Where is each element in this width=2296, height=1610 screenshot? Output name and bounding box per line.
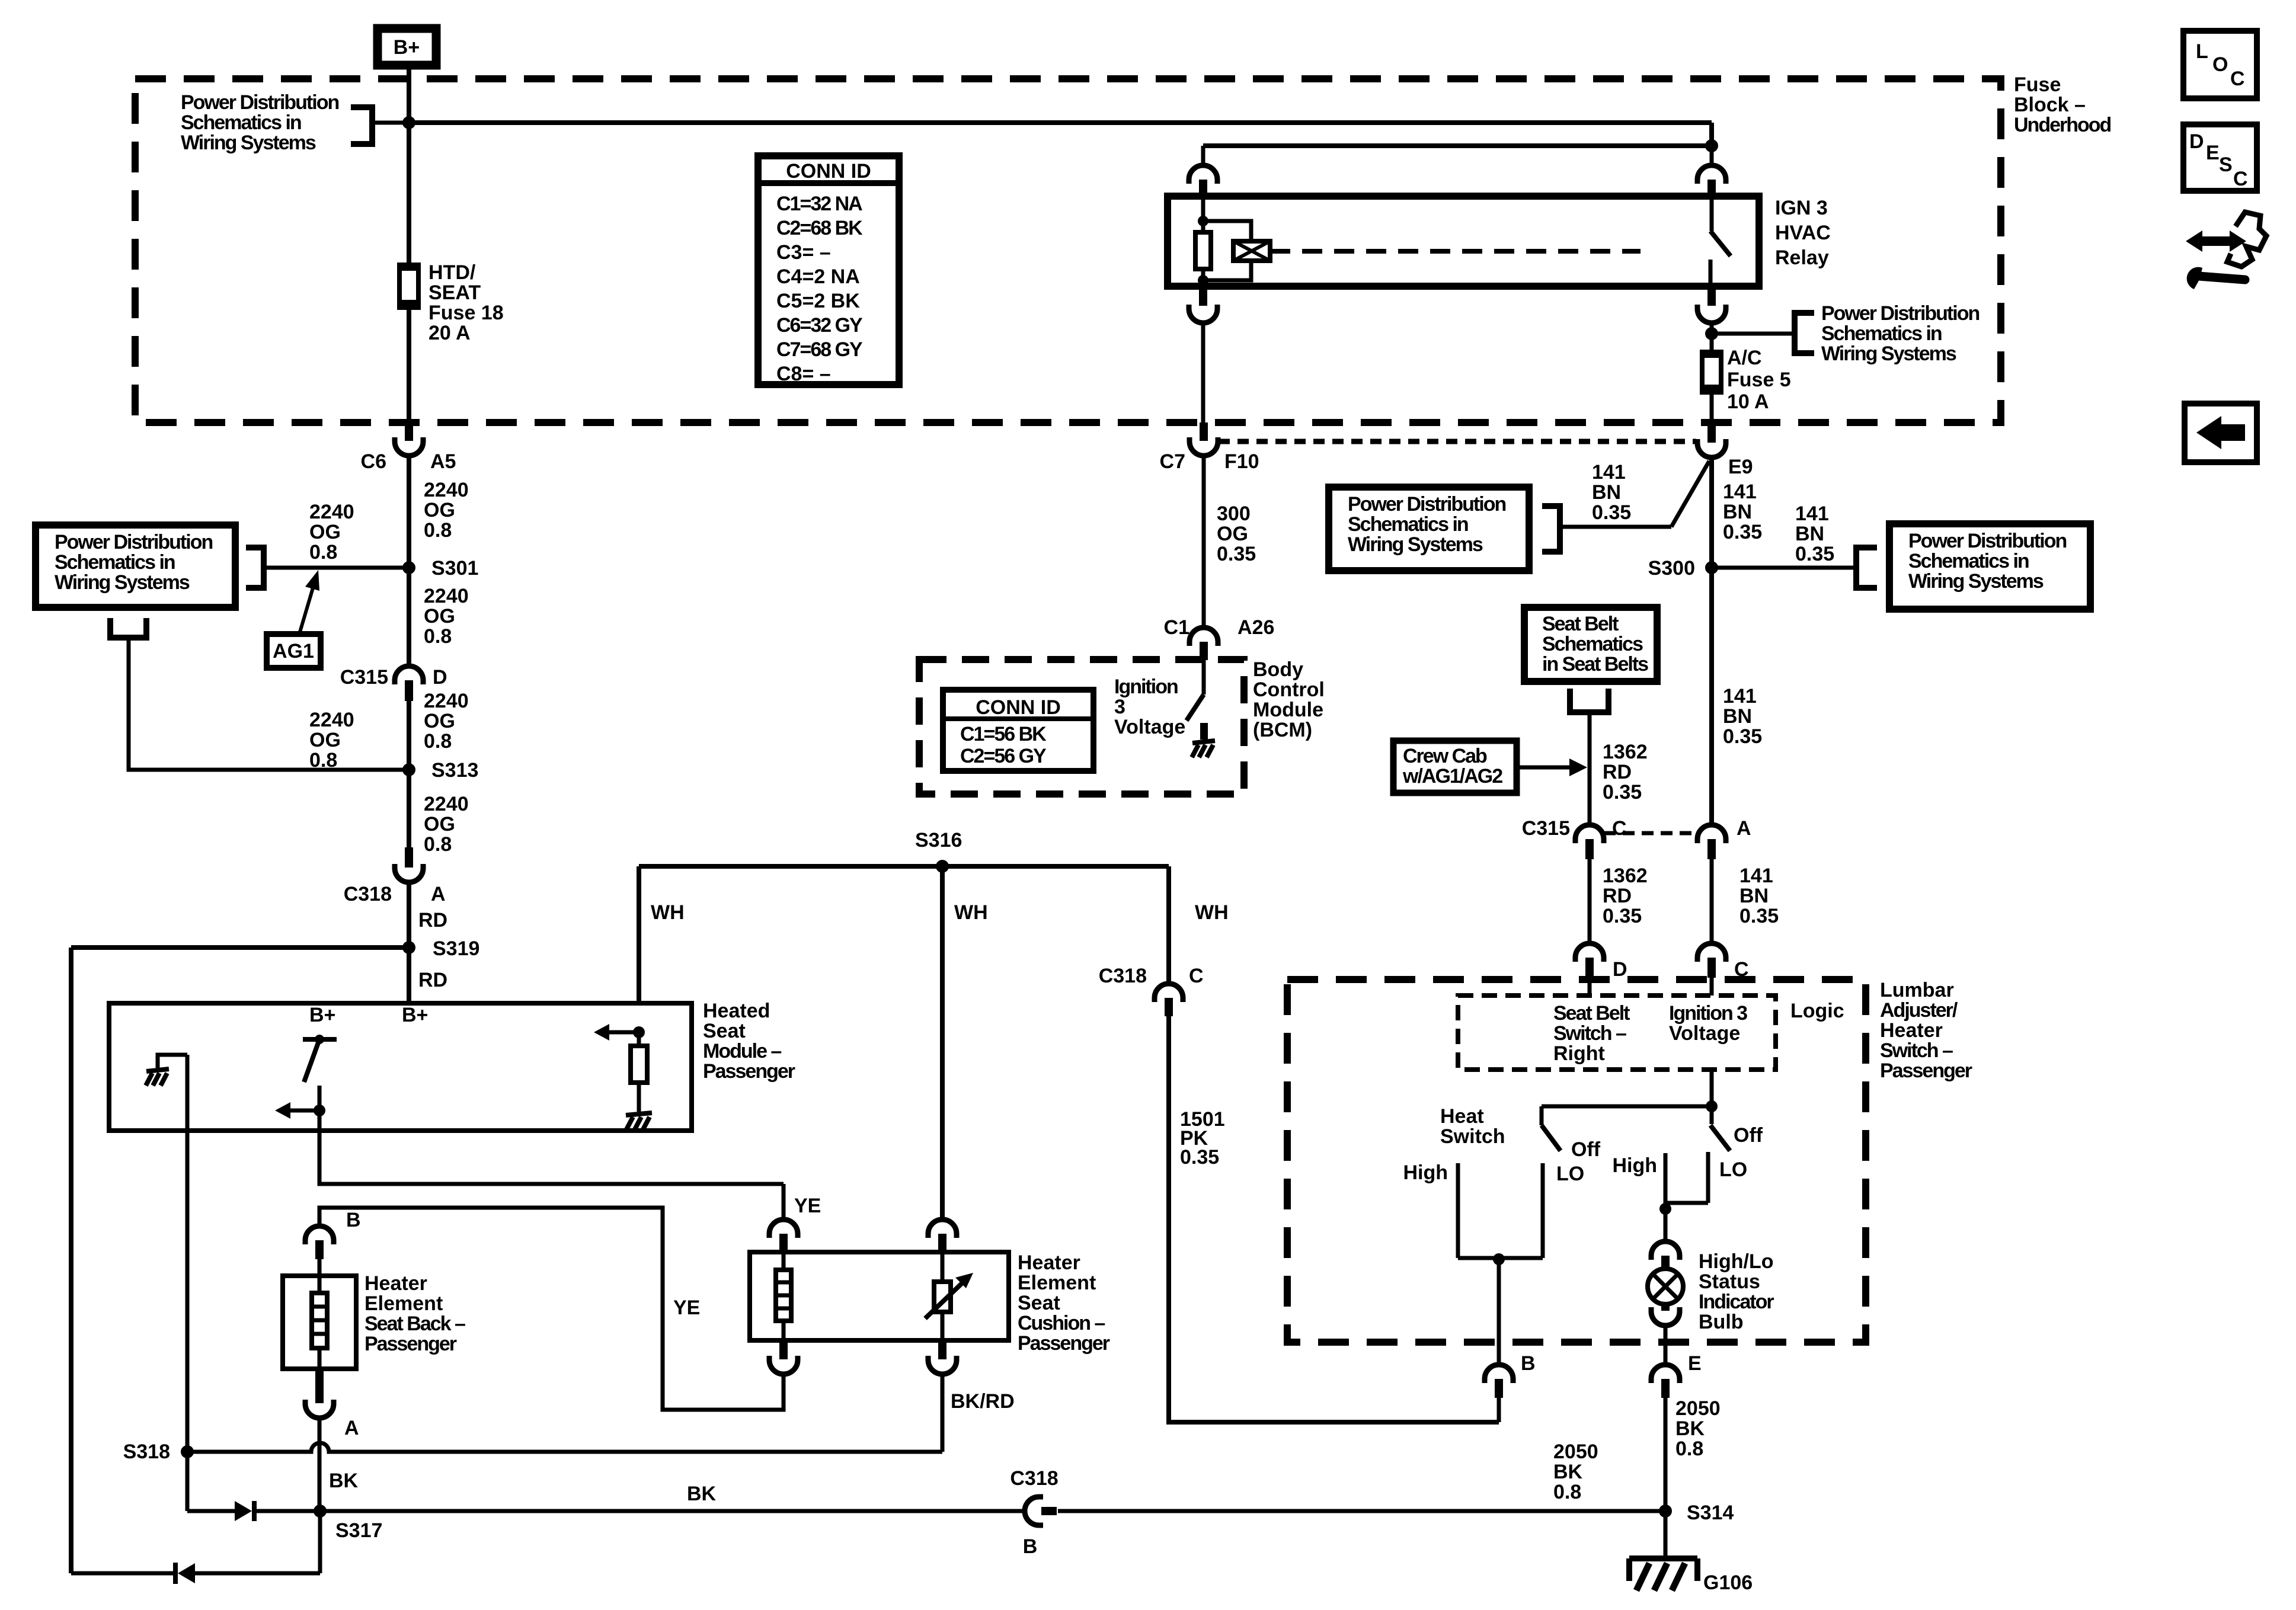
svg-text:141: 141 [1739, 865, 1773, 887]
heater element symbol (cushion) [782, 1252, 786, 1270]
svg-text:O: O [2212, 53, 2228, 76]
svg-text:Seat: Seat [1018, 1292, 1060, 1314]
svg-text:Switch –: Switch – [1553, 1022, 1626, 1045]
svg-text:300: 300 [1217, 502, 1251, 525]
svg-text:Power Distribution: Power Distribution [1821, 302, 1979, 325]
svg-text:Passenger: Passenger [364, 1333, 457, 1355]
svg-text:Seat: Seat [703, 1020, 746, 1042]
logic dashed box [1458, 996, 1776, 1070]
wire: 1501 PK down and over to heat switch [1169, 1016, 1499, 1422]
svg-text:AG1: AG1 [273, 640, 314, 662]
wire: right pole output to bulb [1664, 1209, 1668, 1242]
node S313 [402, 763, 415, 776]
svg-text:0.35: 0.35 [1603, 781, 1642, 804]
svg-text:Wiring Systems: Wiring Systems [1821, 343, 1956, 365]
svg-text:0.8: 0.8 [424, 625, 452, 648]
svg-text:Fuse: Fuse [2014, 73, 2061, 96]
svg-text:0.35: 0.35 [1723, 725, 1762, 748]
svg-text:141: 141 [1795, 502, 1829, 525]
svg-text:S317: S317 [335, 1519, 382, 1542]
svg-text:C1: C1 [1164, 616, 1189, 639]
wire: D into logic box [1588, 978, 1592, 996]
svg-text:High: High [1612, 1154, 1657, 1177]
svg-text:0.8: 0.8 [309, 541, 337, 564]
wire: bracket to S301 [264, 566, 409, 570]
svg-text:Element: Element [1018, 1272, 1096, 1294]
svg-text:Schematics in: Schematics in [55, 551, 175, 574]
svg-text:Switch –: Switch – [1880, 1039, 1953, 1062]
node: module sense junction [633, 1026, 645, 1038]
wire: S319 down into module [407, 948, 411, 1003]
module output arrow (to other circuits) [286, 1109, 319, 1113]
svg-text:0.8: 0.8 [424, 730, 452, 753]
svg-text:C: C [2233, 168, 2248, 190]
svg-text:Bulb: Bulb [1699, 1311, 1744, 1333]
bracket to Power Distribution box (middle) [1542, 506, 1560, 552]
relay coil resistor element [1201, 221, 1205, 232]
svg-text:Element: Element [364, 1292, 443, 1315]
svg-text:Crew Cab: Crew Cab [1403, 745, 1487, 767]
svg-text:C6: C6 [361, 450, 386, 473]
connector: relay coil pin (top left) [1189, 165, 1217, 184]
svg-text:0.8: 0.8 [1675, 1438, 1703, 1460]
wire: C7 to C1 [1202, 456, 1206, 628]
node S301 [402, 561, 415, 574]
BCM CONN ID box [943, 690, 1093, 771]
node: relay coil bottom [1198, 275, 1208, 286]
svg-text:2240: 2240 [424, 793, 469, 815]
wire: seat back element down across hop [318, 1418, 322, 1511]
svg-text:C7=68 GY: C7=68 GY [776, 338, 863, 361]
svg-text:Passenger: Passenger [1880, 1060, 1972, 1082]
svg-text:Switch: Switch [1440, 1125, 1505, 1148]
svg-text:3: 3 [1114, 696, 1125, 718]
svg-text:High: High [1403, 1161, 1448, 1184]
svg-text:10 A: 10 A [1727, 391, 1769, 413]
svg-text:2240: 2240 [309, 709, 354, 731]
svg-text:A/C: A/C [1727, 347, 1762, 369]
svg-text:C315: C315 [340, 666, 388, 689]
svg-text:C8= –: C8= – [776, 363, 831, 385]
svg-text:141: 141 [1592, 461, 1626, 484]
svg-text:Passenger: Passenger [1018, 1332, 1110, 1355]
svg-text:C: C [2230, 68, 2245, 90]
wire: C into logic box [1710, 978, 1714, 996]
wire: junction to right bracket [1712, 332, 1795, 336]
svg-text:BN: BN [1723, 705, 1752, 728]
svg-text:S314: S314 [1687, 1502, 1734, 1524]
relay coil bottom post to box [1201, 280, 1205, 286]
node: A/C fuse feed junction [1705, 327, 1718, 340]
svg-text:HVAC: HVAC [1775, 222, 1831, 244]
svg-text:Schematics in: Schematics in [1908, 550, 2029, 572]
DESC icon box [2183, 124, 2257, 191]
connector (cushion bottom left YE) [779, 1340, 788, 1359]
svg-text:S316: S316 [915, 829, 962, 852]
wire: bracket to B+ junction [372, 121, 409, 125]
svg-text:BN: BN [1739, 885, 1769, 907]
svg-text:Power Distribution: Power Distribution [1908, 530, 2066, 552]
wire: E9 to S300 [1709, 457, 1714, 568]
svg-text:C4=2 NA: C4=2 NA [776, 265, 860, 288]
connector: relay output pin (bottom right) [1707, 286, 1716, 306]
svg-text:OG: OG [309, 521, 341, 543]
diode (S318 to S317, pointing right) [187, 1509, 235, 1513]
callout Crew Cab w/AG1/AG2 box [1393, 741, 1517, 793]
svg-text:C2=56 GY: C2=56 GY [960, 745, 1047, 767]
lumbar adjuster/heater switch dashed box [1287, 980, 1866, 1342]
svg-text:C6=32 GY: C6=32 GY [776, 314, 863, 337]
connector BK/RD (cushion bottom right) [938, 1340, 946, 1359]
wire: left pole output to B [1497, 1259, 1501, 1365]
module sense arrow (to other circuits) [605, 1030, 639, 1035]
svg-text:WH: WH [954, 901, 988, 924]
svg-text:Power Distribution: Power Distribution [55, 531, 212, 553]
svg-text:Module: Module [1253, 699, 1323, 721]
service/wrench navigation icon [2186, 231, 2246, 252]
svg-text:B+: B+ [394, 36, 420, 59]
wire: A to lumbar C [1710, 859, 1714, 944]
svg-text:BK/RD: BK/RD [951, 1390, 1015, 1413]
svg-text:HTD/: HTD/ [428, 261, 476, 284]
svg-text:Wiring Systems: Wiring Systems [1908, 570, 2044, 593]
bulkhead connector dotted row line [1219, 439, 1696, 444]
svg-text:Heated: Heated [703, 1000, 770, 1022]
wire: S316 right drop to C318/C [1166, 866, 1171, 984]
heat switch right pole blade [1710, 1106, 1714, 1124]
node: relay feed junction [1705, 139, 1718, 152]
svg-text:Fuse 5: Fuse 5 [1727, 369, 1791, 391]
connector B (seat back element) [305, 1226, 334, 1244]
svg-text:C318: C318 [344, 883, 392, 905]
wire: coil feed horizontal [1203, 143, 1712, 148]
svg-text:141: 141 [1723, 481, 1757, 503]
svg-text:Schematics: Schematics [1542, 633, 1643, 655]
connector E9 [1707, 424, 1716, 443]
svg-text:2050: 2050 [1553, 1441, 1598, 1463]
connector D (lumbar switch) [1575, 943, 1604, 962]
node S317 [314, 1505, 327, 1518]
wire: E pin down to S314 [1664, 1398, 1668, 1511]
bracket to Power Distribution box (right) [1856, 548, 1877, 588]
svg-text:RD: RD [1603, 761, 1632, 783]
svg-text:C: C [1189, 965, 1204, 987]
label: Power Distribution Schematics in Wiring Systems box (middle) [1329, 487, 1529, 571]
svg-text:BK: BK [1553, 1461, 1583, 1483]
ground symbol (module internal left) [146, 1069, 169, 1071]
svg-text:S301: S301 [431, 557, 478, 580]
wire: S318 bus with hop over seat back lead [187, 1443, 942, 1452]
connector: bulb top terminal [1651, 1241, 1680, 1260]
bracket to Power Distribution reference (top left) [351, 107, 372, 144]
svg-text:0.8: 0.8 [309, 749, 337, 772]
svg-text:Power Distribution: Power Distribution [181, 91, 338, 114]
node: heat switch feed junction [1706, 1100, 1718, 1112]
svg-text:C3= –: C3= – [776, 241, 831, 264]
svg-text:S319: S319 [433, 937, 479, 960]
connector C6/A5 on trunk [405, 422, 413, 441]
bracket under Seat Belt box [1570, 689, 1609, 712]
svg-text:YE: YE [673, 1297, 700, 1319]
svg-text:2050: 2050 [1675, 1397, 1721, 1420]
connector: relay switch pin (top right) [1710, 146, 1714, 166]
relay coil branch loop [1203, 221, 1251, 241]
svg-text:CONN ID: CONN ID [976, 696, 1061, 719]
svg-text:C318: C318 [1099, 965, 1147, 987]
svg-text:WH: WH [651, 901, 685, 924]
wire: S317 down to diode return [318, 1511, 322, 1573]
wire: C315 to S313 [407, 701, 411, 770]
svg-text:0.35: 0.35 [1739, 905, 1779, 927]
node S314 [1659, 1505, 1672, 1518]
svg-text:0.35: 0.35 [1217, 543, 1256, 565]
svg-text:G106: G106 [1703, 1571, 1753, 1594]
arrow from Crew Cab box to wire [1517, 766, 1571, 770]
BCM ground stub [1200, 723, 1208, 740]
svg-text:Schematics in: Schematics in [1821, 322, 1942, 345]
svg-text:0.8: 0.8 [424, 833, 452, 856]
svg-text:S313: S313 [431, 759, 478, 782]
svg-text:Voltage: Voltage [1669, 1022, 1740, 1045]
module internal resistor [637, 1032, 641, 1046]
svg-text:20 A: 20 A [428, 322, 471, 344]
svg-text:2240: 2240 [424, 585, 469, 607]
svg-text:2240: 2240 [309, 501, 354, 523]
wire: BK bus to S314 [1058, 1509, 1665, 1513]
bracket to Power Distribution box (left) [246, 548, 264, 588]
BCM dashed box [919, 660, 1244, 794]
wire: E9 angled branch to bracket [1671, 461, 1709, 527]
svg-text:Wiring Systems: Wiring Systems [55, 571, 190, 594]
svg-text:Heater: Heater [364, 1272, 427, 1295]
heater element symbol (seat back) [318, 1276, 322, 1293]
svg-text:B+: B+ [402, 1004, 428, 1026]
variable resistor symbol (cushion sensor) [941, 1252, 945, 1282]
relay control dashed line [1270, 249, 1641, 254]
connector WH (cushion top right) [928, 1219, 957, 1238]
svg-text:C1=32 NA: C1=32 NA [776, 193, 862, 215]
connector C315/D [395, 666, 423, 684]
high/lo status indicator bulb [1648, 1269, 1683, 1304]
svg-text:C2=68 BK: C2=68 BK [776, 217, 863, 239]
svg-text:Heat: Heat [1440, 1105, 1484, 1128]
node S318 [181, 1445, 194, 1458]
back arrow icon box [2185, 404, 2257, 462]
wire: S300 to right bracket [1712, 566, 1856, 570]
svg-text:Schematics in: Schematics in [1348, 513, 1468, 536]
svg-text:B: B [1521, 1352, 1536, 1375]
svg-text:Underhood: Underhood [2014, 114, 2111, 136]
wire: C315/C to lumbar D [1588, 859, 1592, 944]
svg-text:Body: Body [1253, 658, 1303, 681]
wire: YE link cushion to seat back [319, 1208, 784, 1410]
ground symbol (module internal right) [626, 1113, 652, 1115]
wire: S318 down to S317 line [186, 1452, 190, 1511]
svg-text:YE: YE [794, 1195, 821, 1217]
svg-text:Lumbar: Lumbar [1880, 979, 1954, 1001]
diode (return line, pointing left) [257, 1571, 320, 1576]
wire: S316 horizontal [639, 864, 1169, 869]
svg-text:Power Distribution: Power Distribution [1348, 493, 1505, 516]
svg-text:A: A [344, 1417, 359, 1439]
relay switch blade [1710, 196, 1714, 231]
svg-text:C1=56 BK: C1=56 BK [960, 723, 1047, 745]
wire: S313 to C318 [407, 770, 411, 847]
svg-text:Logic: Logic [1790, 1000, 1844, 1022]
heat switch right pole contacts [1664, 1153, 1668, 1212]
svg-text:Off: Off [1734, 1124, 1763, 1147]
dashed tie line C315 connector pair [1604, 831, 1697, 836]
svg-text:w/AG1/AG2: w/AG1/AG2 [1402, 765, 1502, 788]
node: module switch output [314, 1105, 325, 1116]
svg-text:SEAT: SEAT [428, 281, 481, 304]
svg-text:A: A [431, 883, 446, 905]
svg-text:D: D [2189, 130, 2204, 153]
bracket to Power Distribution reference (fuse block right) [1795, 313, 1814, 353]
connector C315/C (seat belt wire) [1575, 825, 1604, 843]
heated seat module box [109, 1003, 692, 1131]
wire: S316 middle drop to cushion element [940, 866, 945, 1220]
wire: horizontal to middle bracket [1560, 525, 1671, 529]
wire: coil feed drop to relay [1201, 146, 1205, 166]
label: Seat Belt Schematics in Seat Belts box [1524, 607, 1657, 681]
arrow from AG1 to wire [299, 582, 315, 634]
wire: S300 down to connector A [1709, 568, 1714, 825]
svg-text:(BCM): (BCM) [1253, 719, 1312, 741]
wire: left box lead down to S313 [129, 639, 409, 770]
connector YE (cushion top left) [769, 1219, 798, 1238]
svg-text:0.8: 0.8 [1553, 1481, 1581, 1503]
svg-text:E: E [2206, 142, 2220, 164]
bracket under Power Distribution box (left) [110, 618, 146, 638]
relay coil left post upper wire [1201, 196, 1205, 221]
connector C318/A (trunk) [405, 847, 413, 868]
module internal switch [303, 1037, 337, 1042]
svg-text:Module –: Module – [703, 1040, 781, 1062]
svg-text:Passenger: Passenger [703, 1060, 795, 1083]
wire: feed to left heat switch [1542, 1105, 1712, 1109]
svg-text:Control: Control [1253, 678, 1325, 701]
svg-text:0.35: 0.35 [1795, 543, 1834, 565]
CONN ID title separator [758, 180, 899, 186]
node: right pole output [1659, 1203, 1671, 1215]
svg-text:IGN 3: IGN 3 [1775, 197, 1828, 219]
svg-text:BN: BN [1795, 523, 1824, 545]
connector C7/F10 [1200, 422, 1208, 441]
wire: module output down to cushion YE connector [782, 1184, 786, 1220]
svg-text:Ignition: Ignition [1114, 676, 1178, 698]
node S316 [936, 860, 949, 873]
svg-text:C318: C318 [1010, 1467, 1058, 1490]
wire: main feed horizontal to HVAC relay switch [409, 120, 1712, 125]
svg-text:C315: C315 [1522, 817, 1570, 840]
svg-text:0.35: 0.35 [1723, 521, 1762, 543]
svg-text:C7: C7 [1160, 450, 1185, 473]
wire: left tall return line [69, 948, 73, 1573]
connector A (ignition wire) [1697, 825, 1726, 843]
svg-text:OG: OG [1217, 523, 1248, 545]
svg-text:BK: BK [329, 1470, 359, 1492]
wire: B+ down to junction [407, 65, 411, 123]
svg-text:E: E [1688, 1352, 1702, 1375]
svg-text:F10: F10 [1224, 450, 1259, 473]
svg-text:Heater: Heater [1018, 1251, 1080, 1274]
svg-text:D: D [1613, 958, 1627, 981]
ground G106 symbol [1629, 1555, 1697, 1561]
svg-text:RD: RD [1603, 885, 1632, 907]
svg-text:0.8: 0.8 [424, 519, 452, 542]
svg-text:OG: OG [424, 499, 455, 521]
svg-text:Wiring Systems: Wiring Systems [1348, 533, 1483, 556]
connector C1/A26 [1189, 628, 1218, 646]
ground symbol (BCM) [1192, 741, 1215, 743]
svg-text:Wiring Systems: Wiring Systems [181, 132, 316, 154]
svg-text:2240: 2240 [424, 690, 469, 712]
wire: S316 left drop into module [637, 866, 641, 1003]
svg-text:S: S [2219, 153, 2233, 176]
relay IGN 3 HVAC box [1168, 196, 1759, 286]
svg-text:OG: OG [424, 605, 455, 628]
wire: S301 to C315 [407, 568, 411, 667]
svg-text:BK: BK [687, 1483, 717, 1505]
svg-text:in Seat Belts: in Seat Belts [1542, 653, 1648, 676]
svg-text:LO: LO [1556, 1163, 1584, 1185]
svg-text:S318: S318 [123, 1441, 170, 1463]
svg-text:LO: LO [1719, 1158, 1747, 1181]
node: relay coil top [1198, 216, 1208, 226]
wire: BK/RD down to S318 line [941, 1374, 945, 1452]
svg-text:E9: E9 [1728, 456, 1753, 478]
svg-text:2240: 2240 [424, 479, 469, 501]
CONN ID table box [758, 156, 899, 385]
fuse HTD/SEAT Fuse 18 20A [407, 123, 411, 266]
svg-text:B+: B+ [309, 1004, 335, 1026]
wire: logic output down [1710, 1070, 1714, 1106]
svg-text:D: D [433, 666, 447, 689]
svg-text:Right: Right [1553, 1042, 1605, 1065]
label: Power Distribution Schematics in Wiring Systems box (left) [36, 525, 235, 607]
fuse A/C Fuse 5 10A [1710, 334, 1714, 352]
connector C318/C [1155, 984, 1183, 1002]
connector C (lumbar switch) [1697, 943, 1726, 962]
svg-text:Relay: Relay [1775, 247, 1829, 269]
node: B+ distribution junction [402, 116, 415, 129]
svg-text:RD: RD [418, 969, 447, 991]
svg-text:Block –: Block – [2014, 94, 2086, 116]
wire: C318 to S319 [407, 882, 411, 948]
module internal ground bracket [158, 1055, 187, 1068]
BCM ignition switch blade [1202, 660, 1206, 694]
connector C318/B (horizontal) [1025, 1497, 1043, 1525]
svg-text:Cushion –: Cushion – [1018, 1312, 1105, 1334]
svg-text:Status: Status [1699, 1270, 1760, 1293]
heat switch left pole blade [1540, 1106, 1544, 1125]
node S300 [1705, 561, 1718, 574]
LOC icon box [2183, 31, 2257, 98]
battery feed B+ terminal box [378, 28, 436, 65]
BCM CONN ID separator [943, 716, 1093, 721]
node S319 [402, 941, 415, 954]
svg-text:Schematics in: Schematics in [181, 111, 301, 134]
wire: B pin down to 1501 PK wire [1497, 1398, 1501, 1422]
wire: module ground line down to S318 [186, 1055, 190, 1452]
wire: relay bottom-right to junction [1710, 322, 1714, 334]
svg-text:Off: Off [1571, 1138, 1601, 1161]
heater element seat back box [283, 1276, 356, 1369]
svg-text:Adjuster/: Adjuster/ [1880, 999, 1958, 1022]
wire: feed down to relay junction [1709, 123, 1714, 146]
svg-text:B: B [346, 1209, 361, 1231]
